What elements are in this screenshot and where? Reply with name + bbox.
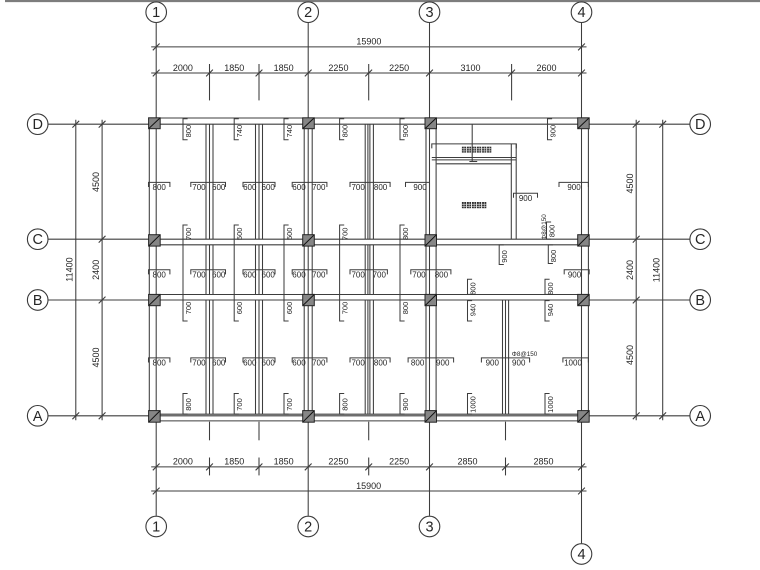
svg-text:940: 940 xyxy=(468,304,477,317)
svg-text:4: 4 xyxy=(577,5,585,21)
svg-text:900: 900 xyxy=(436,359,450,368)
svg-text:940: 940 xyxy=(546,304,555,317)
double rib mid of bay 2-3 (D-C) xyxy=(365,124,373,239)
svg-text:D: D xyxy=(32,117,42,133)
rebar dim 900 right of stair wall (row D-C) xyxy=(514,193,538,203)
column B4 xyxy=(578,294,590,305)
rebar dim 800 at grid1 (corridor) xyxy=(149,270,170,280)
svg-text:2: 2 xyxy=(304,5,312,21)
rib at grid tick 3850 (D-C) xyxy=(256,124,263,239)
stair flight centre line xyxy=(469,124,477,161)
svg-text:700: 700 xyxy=(312,183,326,192)
column C2 xyxy=(303,235,315,246)
top segment dimension line (2000/1850/1850/2250/2250/3100/2600) xyxy=(151,63,586,101)
svg-text:1000: 1000 xyxy=(564,359,582,368)
rebar dim line above C (800) / below B (800) at x=400.0 xyxy=(400,225,410,321)
svg-text:4: 4 xyxy=(577,547,585,563)
svg-text:600: 600 xyxy=(292,359,306,368)
svg-text:600: 600 xyxy=(243,270,257,279)
svg-text:3100: 3100 xyxy=(461,63,481,73)
svg-text:700: 700 xyxy=(351,270,365,279)
svg-text:2: 2 xyxy=(304,520,312,536)
svg-text:4500: 4500 xyxy=(91,172,101,192)
svg-text:600: 600 xyxy=(262,270,276,279)
rebar dim 1000 above grid A at x=467.5 xyxy=(468,394,478,415)
rebar dim 600|600 at rib 3850 (row B-A) xyxy=(243,358,275,368)
grid line 3 xyxy=(429,23,431,516)
grid bubble 4 top xyxy=(571,2,592,23)
svg-text:700: 700 xyxy=(412,270,426,279)
rebar spacing label phi8@150 (row B-A) xyxy=(512,351,538,358)
svg-text:B: B xyxy=(33,293,43,309)
svg-text:700: 700 xyxy=(312,359,326,368)
svg-text:B: B xyxy=(695,293,705,309)
svg-text:1000: 1000 xyxy=(546,396,555,413)
svg-text:900: 900 xyxy=(568,270,582,279)
rib at grid tick 3850 (B-A) xyxy=(256,300,263,414)
rebar dim 700|800 at mid rib (row D-C) xyxy=(350,182,390,192)
column A4 xyxy=(578,411,590,423)
rebar dim 800 above grid A at x=339.6 xyxy=(340,394,350,415)
svg-text:A: A xyxy=(33,409,43,425)
rebar dim 900 below grid D at x=400.0 xyxy=(400,119,410,140)
svg-text:700: 700 xyxy=(192,359,206,368)
column B3 xyxy=(425,294,437,305)
svg-text:700: 700 xyxy=(184,302,193,315)
stair platform label (CJK placeholder blocks) xyxy=(462,147,491,153)
column A3 xyxy=(425,411,437,423)
svg-text:4500: 4500 xyxy=(91,347,101,367)
grid bubble B right xyxy=(690,290,711,311)
rebar dim 600|600 at rib 3850 (row D-C) xyxy=(243,182,275,192)
svg-text:900: 900 xyxy=(519,194,533,203)
svg-text:700: 700 xyxy=(341,228,350,241)
svg-text:1000: 1000 xyxy=(468,396,477,413)
svg-text:900: 900 xyxy=(413,183,427,192)
svg-text:1: 1 xyxy=(152,520,160,536)
stair platform lower edge xyxy=(437,163,511,165)
svg-text:1850: 1850 xyxy=(224,457,244,467)
svg-text:D: D xyxy=(695,117,705,133)
rebar dim 800 above grid C near grid4 xyxy=(547,222,557,239)
column A2 xyxy=(303,411,315,423)
wall outer edge left (grid 1 wall) xyxy=(148,118,150,421)
rebar dim 700|600 at rib 2000 (corridor) xyxy=(191,270,226,280)
stair platform edge line xyxy=(432,144,517,149)
rebar spacing label phi8@150 above grid C xyxy=(541,214,548,240)
svg-text:800: 800 xyxy=(468,282,477,295)
grid line D xyxy=(48,123,690,125)
column D3 xyxy=(425,118,437,129)
svg-text:600: 600 xyxy=(212,183,226,192)
svg-text:A: A xyxy=(695,409,705,425)
svg-text:700: 700 xyxy=(192,270,206,279)
svg-text:600: 600 xyxy=(292,183,306,192)
rebar dim 600|700 at grid2 (corridor) xyxy=(292,270,327,280)
rebar dim line above C (700) / below B (700) at x=183.0 xyxy=(183,225,193,321)
svg-text:1: 1 xyxy=(152,5,160,21)
grid bubble C left xyxy=(27,229,48,250)
rebar dim 800 above grid B at x=545 xyxy=(545,279,555,295)
rebar dim line above C (500) / below B (600) at x=234.2 xyxy=(234,225,244,321)
grid line 4 xyxy=(581,23,583,543)
svg-text:900: 900 xyxy=(548,125,557,138)
rebar dim 900 below grid D at x=547.5 xyxy=(548,119,558,140)
svg-text:700: 700 xyxy=(351,183,365,192)
rebar dim 600|600 at rib 3850 (corridor) xyxy=(243,270,275,280)
grid line C xyxy=(48,238,690,240)
svg-text:15900: 15900 xyxy=(356,481,381,491)
svg-text:1850: 1850 xyxy=(274,457,294,467)
svg-text:600: 600 xyxy=(292,270,306,279)
column C4 xyxy=(578,235,590,246)
column C3 xyxy=(425,235,437,246)
svg-text:740: 740 xyxy=(235,125,244,138)
svg-text:600: 600 xyxy=(285,302,294,315)
column B2 xyxy=(303,294,315,305)
rebar dim 700|600 at rib 2000 (row B-A) xyxy=(191,358,226,368)
rebar dim 1000 above grid A at x=545.0 xyxy=(545,394,555,415)
grid bubble 1 bottom xyxy=(146,516,167,537)
svg-text:C: C xyxy=(32,232,42,248)
svg-text:800: 800 xyxy=(546,282,555,295)
rib at grid tick 2000 (D-C) xyxy=(206,124,213,239)
svg-text:800: 800 xyxy=(374,359,388,368)
svg-text:800: 800 xyxy=(153,183,167,192)
svg-text:15900: 15900 xyxy=(356,37,381,47)
svg-text:800: 800 xyxy=(184,398,193,411)
wall outer edge right (grid 4 wall) xyxy=(587,118,589,421)
svg-text:900: 900 xyxy=(486,359,500,368)
svg-text:2400: 2400 xyxy=(625,260,635,280)
svg-text:1850: 1850 xyxy=(274,63,294,73)
column D1 xyxy=(149,118,161,129)
rebar dim 800 at grid1 (row B-A) xyxy=(149,358,170,368)
svg-text:Φ8@150: Φ8@150 xyxy=(512,351,538,358)
left segment dimension line (4500/2400/4500) xyxy=(91,120,106,421)
svg-text:2250: 2250 xyxy=(328,63,348,73)
svg-text:700: 700 xyxy=(351,359,365,368)
rebar dim 800 above grid B at x=467 xyxy=(468,279,478,295)
svg-text:600: 600 xyxy=(262,183,276,192)
svg-text:2250: 2250 xyxy=(328,457,348,467)
svg-text:800: 800 xyxy=(401,228,410,241)
rebar dim 740 below grid D at x=284.0 xyxy=(284,119,294,140)
svg-text:600: 600 xyxy=(212,359,226,368)
rebar dim 800 above grid A at x=183.0 xyxy=(183,394,193,415)
svg-text:600: 600 xyxy=(243,359,257,368)
grid bubble 1 top xyxy=(146,2,167,23)
svg-text:4500: 4500 xyxy=(625,173,635,193)
svg-text:700: 700 xyxy=(184,228,193,241)
rebar dim 900 left of grid4 (row D-C) xyxy=(559,182,588,192)
rebar dim 940 below grid B at x=545 xyxy=(545,301,555,321)
grid bubble A left xyxy=(27,406,48,427)
page top border line xyxy=(5,0,760,2)
beam along grid 3 xyxy=(426,118,436,421)
rebar dim 700 above grid A at x=284.0 xyxy=(284,394,294,415)
rebar dim 900 left of grid3 (row D-C) xyxy=(406,182,430,192)
grid line B xyxy=(48,299,690,301)
svg-text:800: 800 xyxy=(153,359,167,368)
left overall dimension line 11400 xyxy=(65,120,80,421)
svg-text:800: 800 xyxy=(374,183,388,192)
svg-text:800: 800 xyxy=(411,359,425,368)
svg-text:4500: 4500 xyxy=(625,345,635,365)
grid bubble A right xyxy=(690,406,711,427)
svg-text:2000: 2000 xyxy=(173,457,193,467)
rebar dim 700|800 at grid3 (corridor) xyxy=(411,270,451,280)
rebar dim line above C (700) / below B (700) at x=339.6 xyxy=(340,225,350,321)
rebar dim 900 above grid A at x=400.0 xyxy=(400,394,410,415)
stair well wall xyxy=(511,144,516,239)
rebar dim 900 left of grid4 (corridor) xyxy=(564,270,589,280)
svg-text:2400: 2400 xyxy=(91,260,101,280)
stair see-detail label (CJK placeholder blocks) xyxy=(462,202,486,208)
rebar dim 600|700 at grid2 (row B-A) xyxy=(292,358,327,368)
svg-text:700: 700 xyxy=(312,270,326,279)
column D2 xyxy=(303,118,315,129)
svg-text:900: 900 xyxy=(567,183,581,192)
svg-text:800: 800 xyxy=(341,398,350,411)
svg-text:3: 3 xyxy=(425,5,433,21)
wall outer edge top (grid D beam) xyxy=(149,117,588,119)
grid line 1 xyxy=(155,23,157,516)
svg-text:900: 900 xyxy=(500,250,509,263)
rebar dim 900 below grid C at stair xyxy=(499,245,509,265)
svg-text:700: 700 xyxy=(192,183,206,192)
column A1 xyxy=(149,411,161,423)
svg-text:600: 600 xyxy=(262,359,276,368)
column C1 xyxy=(149,235,161,246)
svg-text:2600: 2600 xyxy=(537,63,557,73)
svg-text:C: C xyxy=(695,232,705,248)
rebar dim 800 below grid D at x=183.0 xyxy=(183,119,193,140)
rebar dim 800 below grid D at x=339.6 xyxy=(340,119,350,140)
wall outer edge bottom (grid A beam) xyxy=(149,414,588,421)
column B1 xyxy=(149,294,161,305)
svg-text:2250: 2250 xyxy=(389,63,409,73)
beam along grid 2 xyxy=(304,118,312,421)
right segment dimension line (4500/2400/4500) xyxy=(625,120,640,421)
column D4 xyxy=(578,118,590,129)
rebar dim 600|700 at grid2 (row D-C) xyxy=(292,182,327,192)
bottom segment dimension line (2000/1850/1850/2250/2250/2850/2850) xyxy=(151,422,586,476)
svg-text:900: 900 xyxy=(401,398,410,411)
top overall dimension line 15900 xyxy=(151,37,586,51)
svg-text:700: 700 xyxy=(341,302,350,315)
svg-text:600: 600 xyxy=(235,302,244,315)
svg-text:2850: 2850 xyxy=(533,457,553,467)
svg-text:700: 700 xyxy=(373,270,387,279)
svg-text:800: 800 xyxy=(547,225,556,238)
rebar dim line above C (500) / below B (600) at x=284.0 xyxy=(284,225,294,321)
svg-text:2850: 2850 xyxy=(457,457,477,467)
grid bubble 3 top xyxy=(419,2,440,23)
double rib mid of bay 2-3 (B-A) xyxy=(365,300,373,414)
svg-text:600: 600 xyxy=(212,270,226,279)
grid bubble B left xyxy=(27,290,48,311)
svg-text:800: 800 xyxy=(435,270,449,279)
rebar dim 940 below grid B at x=467 xyxy=(468,301,478,321)
rib at grid tick 2000 (C-B corridor) xyxy=(206,245,213,295)
svg-text:3: 3 xyxy=(425,520,433,536)
svg-text:740: 740 xyxy=(285,125,294,138)
rebar dim 700 above grid A at x=234.2 xyxy=(234,394,244,415)
rebar dim 1000 left of grid4 (row B-A) xyxy=(563,358,589,368)
double rib mid of bay 2-3 (C-B corridor) xyxy=(365,245,373,295)
beam along grid C xyxy=(149,244,588,246)
svg-text:2250: 2250 xyxy=(389,457,409,467)
svg-text:800: 800 xyxy=(153,270,167,279)
grid line 2 xyxy=(307,23,309,516)
svg-text:11400: 11400 xyxy=(652,258,662,282)
svg-text:800: 800 xyxy=(549,250,558,263)
svg-text:700: 700 xyxy=(235,398,244,411)
grid bubble D right xyxy=(690,114,711,135)
svg-text:900: 900 xyxy=(401,125,410,138)
right overall dimension line 11400 xyxy=(652,120,667,421)
svg-text:500: 500 xyxy=(285,228,294,241)
grid bubble D left xyxy=(27,114,48,135)
svg-text:700: 700 xyxy=(285,398,294,411)
svg-text:600: 600 xyxy=(243,183,257,192)
rebar dim 900|900 at rib (row B-A) xyxy=(481,358,529,368)
rebar dim 740 below grid D at x=234.2 xyxy=(234,119,244,140)
grid line A xyxy=(48,415,690,417)
grid bubble 2 bottom xyxy=(298,516,319,537)
svg-text:11400: 11400 xyxy=(65,257,75,281)
grid bubble 2 top xyxy=(298,2,319,23)
svg-text:800: 800 xyxy=(401,302,410,315)
svg-text:800: 800 xyxy=(184,125,193,138)
bottom overall dimension line 15900 xyxy=(151,481,586,495)
stair platform beam (double line) xyxy=(432,158,517,160)
beam along grid B xyxy=(149,294,588,296)
rebar dim 700|800 at mid rib (row B-A) xyxy=(350,358,390,368)
svg-text:500: 500 xyxy=(235,228,244,241)
rib in bay 3-4 (B-A) xyxy=(503,300,509,414)
svg-text:Φ8@150: Φ8@150 xyxy=(541,214,548,240)
rib at grid tick 3850 (C-B corridor) xyxy=(256,245,263,295)
svg-text:900: 900 xyxy=(512,359,526,368)
rebar dim 800 at grid1 (row D-C) xyxy=(149,182,170,192)
rebar dim 700|600 at rib 2000 (row D-C) xyxy=(191,182,226,192)
rebar dim 700|700 at mid rib (corridor) xyxy=(350,270,387,280)
grid bubble 3 bottom xyxy=(419,516,440,537)
rebar dim 800|900 at grid3 (row B-A) xyxy=(408,358,454,368)
rib at grid tick 2000 (B-A) xyxy=(206,300,213,414)
grid bubble C right xyxy=(690,229,711,250)
svg-text:2000: 2000 xyxy=(173,63,193,73)
svg-text:800: 800 xyxy=(341,125,350,138)
svg-text:1850: 1850 xyxy=(224,63,244,73)
grid bubble 4 bottom xyxy=(571,544,592,565)
rebar dim 800 below grid C near grid4 xyxy=(548,245,558,264)
